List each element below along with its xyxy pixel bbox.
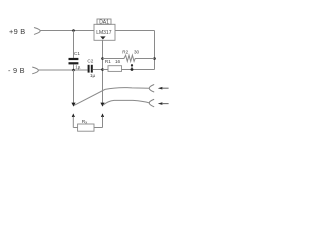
svg-text:30: 30: [134, 50, 140, 55]
node tap stub with dots: [131, 65, 133, 70]
node junction at C1 top: [72, 29, 75, 32]
wire sense line upper (from left probe tip): [74, 88, 149, 106]
svg-text:1µ: 1µ: [75, 65, 81, 70]
regulator DA1 designator box: [97, 19, 111, 24]
connector X4 (-9V input socket): [33, 67, 39, 74]
node junction R2 left: [101, 57, 104, 60]
wire C1 top lead: [73, 31, 75, 58]
svg-text:- 9 В: - 9 В: [8, 66, 25, 75]
node junction C1 / -9V rail: [72, 69, 75, 72]
wire Rx left terminal: [72, 117, 74, 128]
capacitor C1 plates: [69, 58, 79, 60]
plug arrow to X2: [158, 87, 163, 90]
probe down arrow right: [100, 103, 104, 107]
wire -9V rail: [38, 69, 88, 71]
connector X3 (lower sense socket): [149, 99, 154, 106]
regulator DA1 LM317 body box: [94, 24, 115, 40]
svg-text:R2: R2: [122, 50, 128, 55]
wire Rx right terminal: [102, 117, 104, 128]
wire output vertical down: [154, 31, 156, 70]
wire R1 left lead: [103, 69, 109, 71]
wire C2 right lead to node A: [93, 69, 103, 71]
resistor Rx body box: [78, 124, 94, 131]
regulator adjust-pin triangle mark: [100, 36, 105, 39]
probe down arrow left: [71, 103, 75, 107]
svg-text:LM317: LM317: [96, 30, 112, 36]
svg-text:16: 16: [115, 59, 121, 64]
svg-text:C2: C2: [87, 58, 93, 63]
svg-text:C1: C1: [74, 51, 80, 56]
Rx terminal up arrow left: [72, 113, 75, 117]
Rx terminal up arrow right: [101, 113, 104, 117]
svg-text:1µ: 1µ: [90, 73, 96, 78]
svg-text:+9 В: +9 В: [9, 27, 25, 36]
wire LM317 output to right: [115, 30, 155, 32]
wire left probe vertical: [73, 70, 75, 103]
node junction R1 left / C2: [101, 68, 104, 71]
plug arrow to X3: [158, 102, 163, 105]
wire C1 bottom lead: [73, 64, 75, 70]
connector X1 (+9V input socket): [34, 28, 40, 35]
wire +9V rail: [40, 30, 94, 32]
node junction R2 right: [153, 57, 156, 60]
capacitor C2 plates: [88, 65, 90, 73]
wire Rx bottom left: [73, 127, 77, 129]
wire ADJ vertical node A: [102, 40, 104, 103]
svg-text:R1: R1: [105, 59, 111, 64]
wire Rx bottom right: [94, 127, 103, 129]
wire R1 right lead: [122, 69, 155, 71]
resistor R2 zigzag: [103, 55, 155, 61]
resistor R1 body box: [108, 66, 122, 72]
connector X2 (upper sense socket): [149, 85, 154, 92]
wire sense line lower (from right probe tip): [103, 100, 149, 105]
